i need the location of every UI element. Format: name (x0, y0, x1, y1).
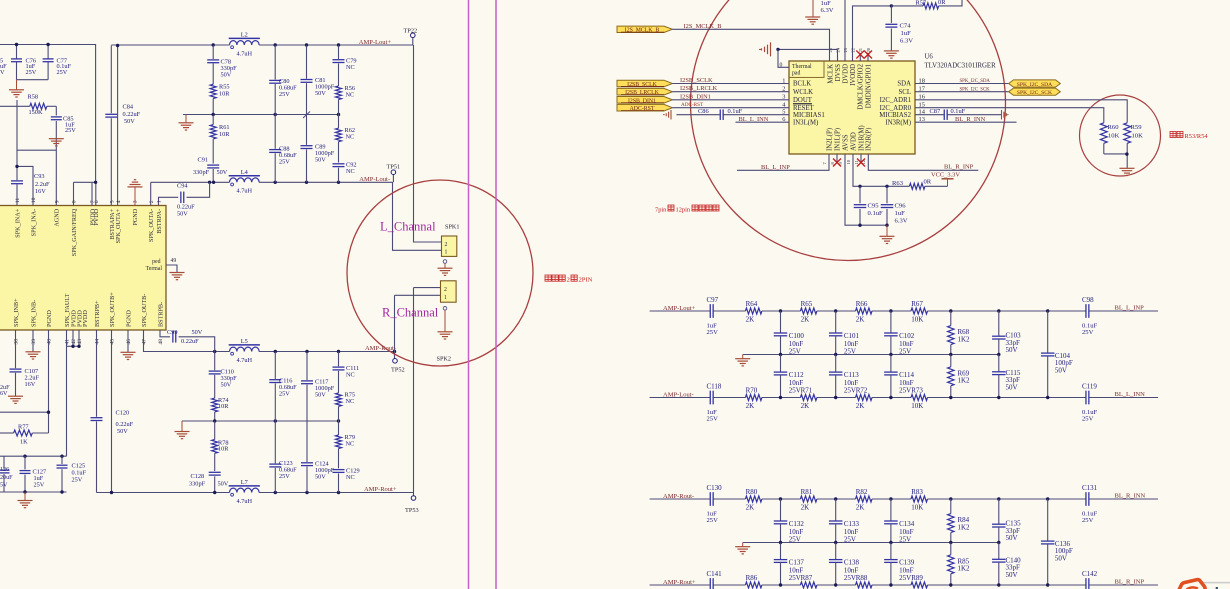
guide line magenta 2 (495, 0, 497, 589)
svg-text:330pF: 330pF (193, 169, 210, 176)
resistor R63 (909, 183, 925, 189)
capacitor C136 (1047, 499, 1049, 541)
wire IN3L (736, 121, 790, 123)
svg-text:1K2: 1K2 (958, 565, 971, 573)
wire BSTRAPA riser (117, 46, 119, 206)
svg-text:NC: NC (346, 91, 355, 98)
svg-text:C128: C128 (191, 473, 205, 480)
svg-text:R71: R71 (801, 387, 813, 395)
svg-text:50V: 50V (315, 474, 326, 481)
node bottom rail (779, 583, 782, 586)
wire cap rail lower (0, 491, 67, 493)
inductor L4 (230, 178, 260, 182)
svg-text:NC: NC (346, 64, 355, 71)
svg-text:25V: 25V (789, 386, 801, 394)
ground side AGND (770, 42, 772, 56)
capacitor C104 (1047, 311, 1049, 353)
capacitor C88 (269, 149, 281, 151)
svg-text:10K: 10K (911, 503, 923, 511)
resistor R68 (950, 311, 952, 326)
svg-text:DVDD: DVDD (842, 64, 849, 84)
capacitor C129 (333, 469, 345, 471)
wire AMP-Rout- rail (650, 498, 710, 500)
svg-text:AVDD: AVDD (850, 132, 857, 151)
resistor R85 (950, 543, 952, 555)
capacitor C113 (835, 355, 837, 373)
svg-text:R57: R57 (916, 0, 927, 6)
port I2S_MCLK_B (617, 26, 672, 32)
node AMP-Lout- junctions (208, 181, 211, 184)
resistor R87 (800, 582, 817, 588)
resistor R75 (336, 393, 342, 407)
svg-text:SPK_OUTA+: SPK_OUTA+ (115, 208, 122, 243)
wire I2SB_SCLK (672, 83, 789, 85)
svg-text:50V: 50V (221, 381, 232, 388)
svg-text:C141: C141 (707, 570, 723, 578)
svg-text:50V: 50V (1006, 346, 1018, 354)
svg-text:2K: 2K (856, 402, 865, 410)
wire DVDD riser (844, 0, 846, 61)
svg-text:SPK_INB-: SPK_INB- (30, 300, 37, 327)
resistor R56 (336, 86, 342, 100)
resistor R70 (745, 395, 762, 401)
wire pin47 to AMP-Rout- rail (144, 330, 230, 352)
svg-text:IN3L(M): IN3L(M) (793, 119, 818, 126)
capacitor C115 (998, 355, 1000, 372)
svg-text:I2SB_DIN1: I2SB_DIN1 (628, 98, 656, 104)
svg-text:C139: C139 (899, 559, 915, 567)
wire C124 column (306, 421, 308, 462)
svg-text:R61: R61 (219, 124, 230, 131)
svg-text:25V: 25V (279, 473, 290, 480)
inductor L2 (230, 41, 260, 45)
svg-text:10K: 10K (1132, 133, 1144, 140)
resistor R72 (856, 395, 873, 401)
wire SDA (915, 83, 1009, 85)
svg-text:12pin: 12pin (676, 207, 691, 214)
node C93 (15, 165, 18, 168)
ground mid rail (185, 115, 187, 123)
ground SPK2 (443, 307, 447, 311)
svg-text:50V: 50V (1055, 366, 1067, 374)
connector SPK2 (441, 281, 457, 302)
resistor R71 (800, 395, 817, 401)
node cap rail (23, 455, 26, 458)
nc marks bottom pins (836, 154, 838, 163)
svg-text:4.7uH: 4.7uH (237, 357, 253, 364)
svg-text:MICBIAS1: MICBIAS1 (793, 112, 825, 119)
wire pin45 column (111, 330, 113, 493)
svg-text:IN1R(M): IN1R(M) (858, 125, 865, 151)
svg-text:46: 46 (126, 339, 132, 345)
svg-text:0.22uF: 0.22uF (116, 421, 134, 428)
svg-text:C84: C84 (123, 104, 134, 111)
capacitor C92 (333, 163, 345, 165)
svg-text:2K: 2K (801, 503, 810, 511)
svg-text:1: 1 (445, 250, 448, 256)
svg-text:PGND: PGND (125, 310, 132, 327)
svg-text:2K: 2K (746, 503, 755, 511)
svg-text:2: 2 (567, 277, 570, 284)
svg-text:6V: 6V (0, 391, 8, 397)
svg-text:IN2L(P): IN2L(P) (826, 128, 833, 151)
svg-text:C87: C87 (930, 108, 941, 115)
resistor R64 (745, 308, 762, 314)
wire AMP-Lout+ top rail (111, 44, 229, 46)
svg-text:BSTRPB+: BSTRPB+ (94, 300, 101, 327)
svg-text:50V: 50V (192, 329, 203, 336)
svg-text:R60: R60 (1108, 124, 1120, 131)
svg-text:C94: C94 (177, 183, 188, 190)
port ADC-RST (617, 104, 672, 111)
ground R59 R60 (1120, 167, 1135, 169)
capacitor C130 (709, 492, 711, 506)
svg-text:pad: pad (792, 71, 800, 77)
capacitor C77 (43, 58, 54, 60)
wire C77 column (47, 45, 49, 59)
svg-text:Termal: Termal (146, 266, 163, 272)
capacitor C141 (709, 578, 711, 589)
capacitor C140 (998, 543, 1000, 560)
svg-text:NC: NC (346, 371, 355, 378)
wire R57 net (891, 5, 923, 7)
svg-text:1uF: 1uF (901, 30, 912, 37)
capacitor C116 (269, 379, 281, 381)
svg-text:6.3V: 6.3V (900, 37, 913, 44)
svg-text:WCLK: WCLK (793, 89, 813, 96)
svg-text:0R: 0R (924, 179, 932, 186)
svg-text:25V: 25V (34, 482, 45, 489)
svg-text:50V: 50V (221, 72, 232, 79)
capacitor C114 (890, 355, 892, 373)
svg-text:C118: C118 (707, 383, 722, 391)
svg-text:1K2: 1K2 (958, 523, 971, 531)
resistor R69 (950, 355, 952, 367)
wire C76 column (16, 45, 18, 59)
svg-text:PVDD: PVDD (93, 208, 100, 225)
svg-text:0.1uF: 0.1uF (951, 108, 966, 115)
capacitor C107 (10, 368, 22, 370)
wire MICBIAS1 C86 (677, 114, 721, 116)
wire AMP-Lout- rail (650, 397, 710, 399)
review circle SPK (347, 180, 533, 366)
ground SPK1 (443, 260, 447, 264)
review circle R59 R60 (1080, 95, 1161, 176)
capacitor C124 (301, 462, 313, 464)
svg-text:SPK_OUTA-: SPK_OUTA- (148, 209, 155, 242)
svg-text:R63: R63 (892, 180, 904, 187)
capacitor C134 (890, 499, 892, 521)
svg-text:25V: 25V (1082, 517, 1094, 524)
svg-text:R55: R55 (219, 84, 230, 91)
svg-text:25V: 25V (844, 386, 856, 394)
svg-text:4.7uH: 4.7uH (237, 50, 253, 57)
svg-text:R67: R67 (911, 300, 923, 308)
svg-text:AMP-Rout+: AMP-Rout+ (364, 486, 397, 493)
capacitor C131 (1085, 492, 1087, 506)
svg-text:50V: 50V (315, 90, 326, 97)
svg-text:BL_L_INN: BL_L_INN (1115, 391, 1146, 398)
svg-text:SPK_INA-: SPK_INA- (30, 209, 37, 237)
svg-text:10R: 10R (219, 131, 230, 138)
svg-text:BL_R_INN: BL_R_INN (955, 116, 986, 123)
svg-text:0.22uF: 0.22uF (177, 204, 195, 211)
svg-text:AGND: AGND (54, 208, 61, 226)
capacitor C94 (159, 197, 179, 205)
svg-text:C112: C112 (789, 371, 804, 379)
svg-text:C114: C114 (899, 371, 914, 379)
wire AGND rail (778, 48, 838, 50)
svg-text:I2S_MCLK_B: I2S_MCLK_B (625, 28, 660, 34)
capacitor C91 (207, 164, 219, 166)
svg-text:41: 41 (65, 339, 71, 345)
node mid rail 2 (213, 419, 216, 422)
wire pin2 (150, 182, 152, 205)
svg-text:C131: C131 (1082, 484, 1098, 492)
svg-text:45: 45 (110, 339, 116, 345)
svg-text:BSTRPB-: BSTRPB- (157, 302, 164, 327)
capacitor C142 (1085, 578, 1087, 589)
svg-text:L2: L2 (241, 32, 248, 39)
ground mid rail (742, 543, 744, 547)
resistor R89 (911, 582, 928, 588)
svg-text:TP53: TP53 (405, 507, 419, 514)
wire to SPK2 pin2 (414, 287, 442, 289)
svg-text:SCL: SCL (899, 89, 911, 96)
svg-text:10R: 10R (218, 446, 229, 453)
wire C88 column (274, 115, 276, 149)
svg-text:I2SB_LRCLK: I2SB_LRCLK (625, 90, 660, 96)
wire mid rail (743, 354, 999, 356)
ground pin49 (170, 272, 185, 274)
svg-text:NC: NC (346, 474, 355, 481)
wire I2C_ADR1 (915, 100, 1127, 123)
capacitor C123 (269, 463, 281, 465)
resistor R82 (856, 496, 873, 502)
svg-text:25V: 25V (279, 391, 290, 398)
svg-text:R65: R65 (801, 300, 813, 308)
resistor R80 (745, 496, 762, 502)
svg-text:ped: ped (152, 259, 160, 265)
svg-text:R86: R86 (746, 574, 758, 582)
svg-text:50V: 50V (1006, 571, 1018, 579)
wire MCLK (672, 29, 829, 61)
svg-text:R59: R59 (1131, 124, 1143, 131)
svg-text:1K2: 1K2 (958, 335, 971, 343)
wire C78 column (212, 45, 214, 59)
svg-text:SPK_OUTB-: SPK_OUTB- (141, 294, 148, 327)
node mid rail (779, 541, 782, 544)
svg-text:10: 10 (31, 197, 37, 203)
svg-text:25V: 25V (899, 574, 911, 582)
wire AMP-Lout+ rail (650, 310, 710, 312)
svg-text:2PIN: 2PIN (579, 277, 593, 284)
svg-text:25V: 25V (57, 69, 68, 76)
svg-text:25V: 25V (707, 329, 719, 336)
svg-text:25V: 25V (707, 517, 719, 524)
port I2SB_DIN1 (617, 97, 672, 104)
svg-text:C101: C101 (844, 332, 860, 340)
capacitor C86 (719, 109, 721, 120)
svg-text:6.3V: 6.3V (821, 7, 834, 14)
svg-text:25V: 25V (1082, 415, 1094, 422)
svg-text:4: 4 (116, 200, 122, 203)
wire pin8 PVDD jog (73, 182, 75, 205)
wire I2C_ADR0 (915, 108, 1104, 123)
svg-text:38: 38 (14, 339, 20, 345)
svg-text:2K: 2K (856, 315, 865, 323)
wire C89 column (306, 115, 308, 145)
node PVDD (94, 181, 97, 184)
capacitor C120 (91, 417, 103, 419)
svg-text:C125: C125 (72, 462, 86, 469)
svg-text:3: 3 (133, 200, 139, 203)
resistor R65 (800, 308, 817, 314)
svg-text:SPK_INB+: SPK_INB+ (13, 298, 20, 327)
svg-text:C130: C130 (707, 484, 723, 492)
svg-text:0.1uF: 0.1uF (72, 470, 87, 477)
svg-text:V: V (0, 69, 5, 76)
svg-text:SPK_I2C_SCK: SPK_I2C_SCK (1017, 90, 1052, 96)
svg-text:8: 8 (72, 200, 78, 203)
capacitor C103 (998, 311, 1000, 336)
svg-text:ADC-RST: ADC-RST (630, 106, 655, 112)
svg-text:C97: C97 (707, 296, 719, 304)
svg-text:SPK_GAIN/FREQ: SPK_GAIN/FREQ (71, 208, 78, 256)
node top rail junctions (116, 44, 119, 47)
capacitor C102 (890, 311, 892, 333)
testpoint TP22 (412, 38, 414, 45)
wire I2SB_DIN1 (672, 99, 789, 101)
resistor R84 (950, 499, 952, 514)
svg-text:L4: L4 (241, 169, 249, 176)
svg-text:25V: 25V (899, 386, 911, 394)
node AGND (776, 48, 779, 51)
svg-text:10K: 10K (911, 402, 923, 410)
svg-text:C119: C119 (1082, 383, 1097, 391)
svg-text:U6: U6 (925, 54, 934, 61)
svg-text:PVDD: PVDD (82, 310, 89, 327)
svg-text:25V: 25V (279, 159, 290, 166)
svg-text:R70: R70 (746, 387, 758, 395)
resistor R61 (212, 115, 214, 125)
wire C110 column (214, 352, 216, 371)
svg-text:SPK2: SPK2 (437, 356, 451, 363)
svg-text:50V: 50V (1006, 383, 1018, 391)
IC U6 body (789, 61, 915, 154)
svg-text:R77: R77 (18, 424, 29, 431)
wire cap rail upper (0, 455, 67, 457)
svg-text:25V: 25V (1082, 329, 1094, 336)
capacitor C101 (835, 311, 837, 333)
svg-text:TP52: TP52 (391, 367, 405, 374)
svg-text:C138: C138 (844, 559, 860, 567)
svg-text:Thermal: Thermal (792, 64, 812, 70)
svg-text:25V: 25V (72, 477, 83, 484)
svg-text:TP51: TP51 (387, 164, 401, 171)
svg-text:R80: R80 (746, 488, 758, 496)
resistor R58 (0, 105, 30, 107)
svg-text:C134: C134 (899, 520, 915, 528)
nc marks top pins (859, 53, 861, 61)
testpoint TP53 (413, 493, 415, 496)
wire ADC-RST (672, 107, 789, 109)
wire mid rail 2 (182, 420, 339, 422)
resistor R73 (911, 395, 928, 401)
node top rail (779, 309, 782, 312)
svg-text:SPK_I2C_SDA: SPK_I2C_SDA (960, 79, 991, 84)
svg-text:R81: R81 (801, 488, 813, 496)
capacitor C132 (780, 499, 782, 521)
svg-text:MCLK: MCLK (827, 64, 834, 84)
capacitor C117 (301, 380, 313, 382)
wire MICBIAS2 C87 (915, 114, 944, 116)
svg-text:1K2: 1K2 (958, 377, 971, 385)
wire C80 column (274, 45, 276, 80)
capacitor C96 (886, 186, 888, 203)
svg-text:9: 9 (55, 200, 61, 203)
svg-text:4.7uH: 4.7uH (237, 498, 253, 505)
svg-text:11: 11 (15, 198, 21, 204)
svg-text:C91: C91 (198, 157, 209, 164)
wire crossing mark (303, 112, 310, 119)
capacitor C112 (780, 355, 782, 373)
svg-text:IVODD: IVODD (850, 64, 857, 86)
capacitor C138 (835, 543, 837, 560)
resistor R77 (0, 432, 14, 434)
svg-text:C86: C86 (698, 108, 709, 115)
wire pin38 column (15, 330, 17, 368)
thermal pad box (789, 61, 824, 77)
svg-text:NC: NC (346, 134, 355, 141)
svg-text:50V: 50V (315, 392, 326, 399)
svg-text:330pF: 330pF (189, 480, 206, 487)
node mid rail (212, 113, 215, 116)
svg-text:50V: 50V (1006, 534, 1018, 542)
svg-text:L7: L7 (241, 479, 248, 486)
node pin40 (47, 411, 50, 414)
svg-text:AMP-Lout-: AMP-Lout- (359, 176, 390, 183)
node R59 (1125, 152, 1128, 155)
svg-text:BL_R_INP: BL_R_INP (944, 163, 974, 170)
svg-text:0R: 0R (938, 0, 946, 6)
svg-text:50V: 50V (177, 211, 188, 218)
svg-text:MICBIAS2: MICBIAS2 (879, 112, 911, 119)
svg-text:NC: NC (346, 168, 355, 175)
svg-text:SPK_INA+: SPK_INA+ (14, 208, 21, 237)
wire AMP-Rout+ rail (97, 492, 230, 494)
capacitor C100 (780, 311, 782, 333)
svg-text:10R: 10R (218, 403, 229, 410)
node rail+ junctions (110, 491, 113, 494)
resistor R79 (338, 421, 340, 435)
svg-text:16V: 16V (25, 381, 36, 388)
wire DVSS (837, 49, 839, 61)
svg-text:50V: 50V (315, 157, 326, 164)
capacitor C137 (780, 543, 782, 560)
resistor R74 (212, 398, 218, 412)
svg-text:I2C_ADR1: I2C_ADR1 (880, 97, 911, 104)
svg-text:BL_R_INN: BL_R_INN (1115, 493, 1146, 500)
capacitor C93 (11, 180, 23, 182)
svg-text:BL_R_INP: BL_R_INP (1115, 579, 1145, 586)
resistor R55 (210, 84, 216, 98)
svg-text:1: 1 (157, 200, 163, 203)
svg-text:BL_L_INP: BL_L_INP (761, 164, 790, 171)
svg-text:IN1L(P): IN1L(P) (834, 128, 841, 151)
resistor R57 (923, 3, 939, 9)
wire AVSS (845, 154, 887, 225)
